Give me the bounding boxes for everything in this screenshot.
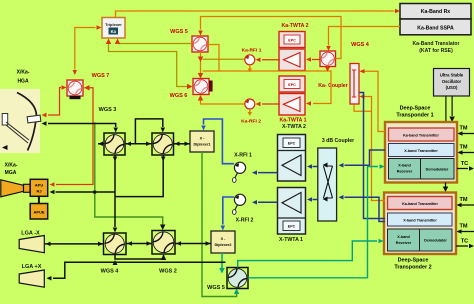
svg-text:TM: TM	[459, 126, 467, 132]
svg-text:(KAT for RSE): (KAT for RSE)	[419, 48, 453, 54]
svg-text:Deep-Space: Deep-Space	[398, 258, 429, 264]
box X-Diplexer 2	[211, 231, 235, 253]
transponder 1 Ka-band Transmitter	[389, 128, 455, 141]
transponder 2 X-band Transmitter	[388, 213, 453, 226]
wire APU RJ black to junction	[56, 191, 115, 193]
wire transponder2 Ka-band to Ka-Coupler	[365, 97, 386, 201]
wire transponder1 X-band to 3dB coupler	[345, 150, 386, 165]
switch WGS 2	[152, 231, 175, 255]
box Ka-Band Rx	[400, 4, 471, 20]
switch WGS 5 bottom	[227, 268, 248, 289]
wire HGA feed to WGS3 A top	[48, 124, 116, 128]
wire transponder1 Ka-band to Ka-Coupler	[365, 71, 386, 131]
wire WGS7 top to triplexer left	[75, 28, 96, 70]
arrow WGS3 A left stub	[98, 142, 103, 147]
svg-text:Ka-Band Rx: Ka-Band Rx	[421, 9, 451, 15]
transponder 1 X-band Transmitter	[389, 144, 455, 157]
svg-text:Ka: Ka	[111, 29, 117, 34]
triplexer Ka tag	[109, 28, 119, 35]
arrow USO into transponder 1	[449, 117, 455, 123]
wire X-TWTA1 to X-RFI2	[258, 201, 278, 203]
wire WGS5 bottom to WGS6 top	[200, 52, 202, 74]
svg-text:APU: APU	[35, 183, 44, 188]
switch WGS 7	[67, 80, 83, 96]
box APUE	[30, 204, 48, 220]
wire Ka-Band SSPA to WGS4	[329, 27, 401, 46]
3 dB coupler box	[318, 148, 337, 221]
amplifier Ka-TWTA 1 with EPC	[279, 76, 305, 92]
svg-text:TM: TM	[459, 197, 467, 203]
box APU RJ	[30, 179, 48, 196]
wire WGS3 A to WGS3 B	[126, 143, 152, 145]
svg-text:X/Ka-: X/Ka-	[17, 70, 30, 76]
wire USO to transponder 1	[445, 96, 447, 122]
svg-text:HGA: HGA	[17, 79, 29, 85]
svg-text:WGS 2: WGS 2	[159, 269, 177, 275]
wire WGS5 right loop to Ka-TWTA1 amp	[203, 45, 220, 72]
wire Ka-TWTA2 amp to Ka-RFI1	[262, 59, 280, 61]
svg-text:X-TWTA 1: X-TWTA 1	[279, 237, 303, 243]
antenna feed struts	[6, 122, 29, 140]
svg-text:Triplexer: Triplexer	[105, 22, 122, 27]
Ka-Coupler box	[350, 64, 359, 105]
svg-text:Diplexer2: Diplexer2	[214, 243, 231, 247]
svg-text:TM: TM	[459, 224, 467, 230]
transponder 1 Demodulator	[421, 159, 455, 180]
wire Ka-Coupler to transponder2 X-band (navy)	[360, 93, 386, 219]
svg-text:LGA -X: LGA -X	[21, 231, 40, 237]
svg-text:WGS 5: WGS 5	[207, 285, 225, 291]
wire LGA +X from long line	[53, 262, 226, 278]
svg-text:Ka-Band SSPA: Ka-Band SSPA	[417, 26, 454, 32]
wire LGA -X to WGS4 bottom switch	[45, 243, 103, 245]
svg-text:X-band: X-band	[398, 164, 411, 168]
svg-text:(USO): (USO)	[446, 85, 458, 90]
termination on WGS 7 bottom	[70, 96, 81, 99]
switch WGS 6	[193, 79, 209, 95]
antenna X/Ka-MGA horn	[1, 180, 24, 197]
box Ka-Band SSPA	[400, 19, 471, 35]
left edge marker arrow	[2, 145, 8, 150]
antenna feed box	[2, 114, 8, 126]
switch WGS 3 A	[104, 133, 125, 155]
wire WGS4 bottom to WGS2	[127, 243, 152, 245]
svg-text:Deep-Space: Deep-Space	[400, 106, 431, 112]
transponder 2 outer box	[384, 193, 456, 255]
antenna subreflector	[27, 115, 41, 123]
transponder 1 X-band Receiver	[389, 159, 421, 180]
svg-text:LGA +X: LGA +X	[22, 264, 42, 270]
amplifier Ka-TWTA 2 with EPC	[279, 32, 305, 48]
box X-Diplexer 1	[190, 131, 214, 152]
circulator Ka-RFI 1	[245, 55, 255, 65]
wire Ka-TWTA1 amp to Ka-RFI2	[262, 103, 280, 105]
svg-text:WGS 7: WGS 7	[92, 73, 110, 79]
svg-text:X -: X -	[221, 237, 227, 241]
wire WGS4 bottom to junction	[327, 67, 329, 72]
wire WGS2 to X-Diplexer2	[176, 243, 211, 245]
svg-text:EPC: EPC	[288, 225, 296, 229]
svg-text:X-band: X-band	[397, 235, 410, 239]
wire WGS4 to WGS5 top rail	[201, 17, 342, 59]
svg-text:Receiver: Receiver	[396, 241, 412, 245]
wire 3dB coupler to X-TWTA1	[313, 199, 318, 201]
wire X-RFI2 to X-Diplexer2 (blue)	[223, 197, 234, 225]
svg-text:RJ: RJ	[36, 189, 41, 194]
svg-text:Ka-band Transmitter: Ka-band Transmitter	[402, 202, 438, 206]
wire loop WGS3 A-B over top	[135, 119, 162, 143]
antenna X/Ka-HGA parabola	[17, 93, 36, 151]
wire X-Diplexer2 to WGS5b left (teal)	[221, 253, 223, 268]
antenna LGA -X horn	[19, 236, 44, 253]
svg-text:EPC: EPC	[288, 38, 296, 42]
wire X-RFI1 to X-Diplexer1 (blue)	[204, 119, 235, 164]
wire WGS4 bottom loop to WGS2 bottom	[115, 255, 164, 260]
arrow into triplexer port A	[106, 39, 112, 45]
transponder 2 Ka-band Transmitter	[388, 197, 453, 210]
svg-text:MGA: MGA	[5, 170, 17, 176]
wire APU RJ to APUE	[38, 196, 40, 203]
svg-text:TC: TC	[461, 161, 468, 167]
junction dot green/black	[93, 191, 96, 194]
wire WGS4 to Ka-TWTA2 amp	[312, 59, 320, 61]
svg-text:WGS 6: WGS 6	[170, 93, 188, 99]
wire WGS5b right to transponder1 receiver (teal)	[248, 167, 378, 278]
transponder 2 Demodulator	[420, 229, 453, 251]
svg-text:Transponder 1: Transponder 1	[396, 113, 433, 119]
wire triplexer to Ka-Band Rx	[116, 11, 395, 18]
svg-text:X-RFI 2: X-RFI 2	[236, 218, 254, 224]
wire 3dB coupler to X-TWTA2	[313, 166, 318, 168]
wire WGS7 left to HGA feed	[48, 88, 61, 116]
wire transponder2 X-band to 3dB coupler	[345, 197, 386, 221]
circulator X-RFI 1	[234, 162, 245, 173]
transponder 2 X-band Receiver	[388, 229, 420, 251]
wire WGS3 A bottom to WGS4 bottom switch	[114, 156, 116, 228]
amplifier X-TWTA 1 with EPC	[278, 188, 306, 235]
wire Ka-Coupler bottom stub	[354, 104, 372, 111]
wire transponder1 to transponder2	[445, 183, 447, 188]
box Ultra Stable Oscillator (USO)	[434, 69, 470, 97]
svg-text:Ka-band Transmitter: Ka-band Transmitter	[403, 133, 439, 137]
switch WGS 4 bottom	[104, 233, 127, 255]
svg-text:X-band Transmitter: X-band Transmitter	[404, 149, 438, 153]
wire WGS3 B bottom joins WGS4 line	[115, 156, 163, 197]
svg-text:X/Ka-: X/Ka-	[5, 163, 18, 169]
arrow into triplexer port B	[115, 39, 121, 45]
transponder 1 outer box	[385, 122, 457, 183]
wire triplexer port A to WGS6 left (olive)	[109, 44, 188, 87]
svg-text:Receiver: Receiver	[397, 170, 413, 174]
svg-text:EPC: EPC	[288, 142, 296, 146]
wire WGS7 right to APU RJ	[56, 88, 93, 185]
svg-text:X-TWTA 2: X-TWTA 2	[282, 124, 306, 130]
svg-text:APUE: APUE	[33, 210, 44, 215]
circulator X-RFI 2	[234, 194, 245, 205]
termination on WGS 6 right	[209, 81, 213, 92]
triplexer Ka box	[102, 18, 125, 39]
svg-text:WGS 3: WGS 3	[99, 107, 117, 113]
svg-text:WGS 4: WGS 4	[101, 269, 120, 275]
svg-text:Ka- Coupler: Ka- Coupler	[318, 83, 347, 89]
svg-text:Ka-Band Translator: Ka-Band Translator	[413, 41, 460, 47]
antenna LGA +X horn	[19, 270, 44, 287]
wire WGS3 B to X-Diplexer1	[174, 143, 190, 145]
svg-text:Ultra Stable: Ultra Stable	[440, 73, 464, 78]
svg-text:X-band Transmitter: X-band Transmitter	[403, 218, 437, 222]
svg-text:EPC: EPC	[288, 83, 296, 87]
3 dB coupler crossing arrows	[324, 166, 333, 198]
switch WGS 5	[192, 36, 208, 52]
svg-text:WGS 5: WGS 5	[170, 29, 188, 35]
svg-text:Demodulator: Demodulator	[424, 239, 447, 243]
amplifier X-TWTA 2 with EPC	[278, 135, 306, 182]
antenna X/Ka-HGA reflector panel	[0, 89, 40, 153]
switch WGS 4 top	[320, 51, 336, 67]
circulator Ka-RFI 2	[245, 99, 255, 109]
wire Ka-RFI1 to WGS5 junction (olive)	[203, 58, 245, 60]
svg-text:X -: X -	[200, 137, 206, 141]
svg-text:Ka-RFI 1: Ka-RFI 1	[242, 48, 262, 54]
svg-text:TC: TC	[461, 239, 468, 245]
wire X-TWTA2 to X-RFI1	[258, 172, 278, 174]
svg-text:Transponder 2: Transponder 2	[394, 265, 431, 271]
svg-text:X-RFI 1: X-RFI 1	[234, 153, 252, 159]
wire X-Diplexer1 to WGS5b bottom (green)	[202, 152, 237, 297]
svg-text:3 dB Coupler: 3 dB Coupler	[322, 138, 354, 144]
wire Ka-RFI2 to WGS6 bottom	[201, 100, 245, 105]
wire triplexer port B to WGS5 left (olive)	[118, 43, 193, 45]
svg-text:Ka-TWTA 1: Ka-TWTA 1	[279, 118, 306, 124]
svg-text:Demodulator: Demodulator	[426, 168, 449, 172]
svg-text:Diplexer1: Diplexer1	[193, 143, 210, 147]
switch WGS 3 B	[152, 133, 174, 155]
svg-text:Oscillator: Oscillator	[442, 79, 462, 84]
svg-text:Ka-RFI 2: Ka-RFI 2	[241, 119, 261, 125]
svg-text:TM: TM	[459, 145, 467, 151]
svg-text:Ka-TWTA 2: Ka-TWTA 2	[281, 23, 308, 29]
wire HGA feed branch to WGS2 top (green)	[95, 122, 163, 224]
svg-text:WGS 4: WGS 4	[351, 42, 370, 48]
wire WGS5b top to transponder2 receiver (teal)	[238, 241, 377, 268]
